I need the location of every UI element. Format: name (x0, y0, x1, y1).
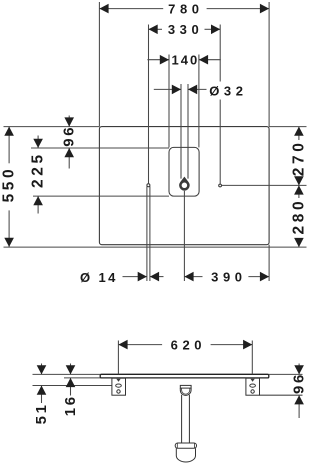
dimension 280 (290, 185, 307, 247)
faucet keyhole slot (181, 147, 188, 178)
console top outline (99, 127, 269, 245)
svg-text:51: 51 (33, 402, 50, 424)
620 extension lines (118, 341, 252, 375)
dimension D32 (154, 84, 248, 99)
svg-text:Ø 14: Ø 14 (80, 270, 118, 285)
dimension 140 (147, 53, 220, 68)
extension lines vertical top (99, 2, 269, 184)
dimension 550 (1, 127, 18, 247)
trap cup (176, 448, 195, 462)
dimension D14 (80, 270, 164, 285)
dimension 390 (184, 270, 269, 285)
dimension 270 (290, 127, 307, 186)
svg-text:620: 620 (171, 338, 207, 353)
dimension 51 (33, 364, 50, 425)
svg-text:550: 550 (1, 166, 18, 203)
trap flange (175, 443, 196, 448)
svg-text:Ø32: Ø32 (209, 84, 247, 99)
hole D14 (147, 184, 150, 187)
svg-text:280: 280 (290, 198, 307, 235)
dimension 96 top view (61, 116, 78, 169)
drain outlet (180, 385, 191, 395)
right small hole (219, 184, 222, 187)
dimension 16 (62, 364, 79, 417)
faucet hole teardrop (179, 177, 190, 191)
dimension 225 (30, 136, 47, 214)
dimension 620 (118, 338, 252, 353)
extension lines vertical bottom (147, 186, 269, 281)
svg-text:16: 16 (62, 394, 79, 416)
dimension 330 (149, 22, 221, 37)
dimension 96 bottom view (291, 364, 308, 419)
console front edge line (4, 246, 307, 248)
svg-text:225: 225 (30, 151, 47, 188)
svg-text:780: 780 (168, 2, 204, 17)
dimension 780 (99, 2, 269, 17)
right bracket (246, 378, 260, 395)
extension lines horizontal right (222, 127, 307, 186)
svg-text:140: 140 (172, 53, 200, 68)
extension lines horizontal left (4, 127, 170, 197)
tailpipe (182, 395, 190, 445)
svg-text:96: 96 (61, 125, 78, 147)
slab extension lines (33, 374, 303, 395)
svg-text:390: 390 (211, 270, 247, 285)
svg-text:96: 96 (291, 372, 308, 394)
slab bar (100, 374, 269, 378)
svg-text:330: 330 (168, 22, 204, 37)
basin cutout (169, 147, 199, 196)
left bracket (112, 378, 126, 395)
svg-text:270: 270 (290, 140, 307, 177)
